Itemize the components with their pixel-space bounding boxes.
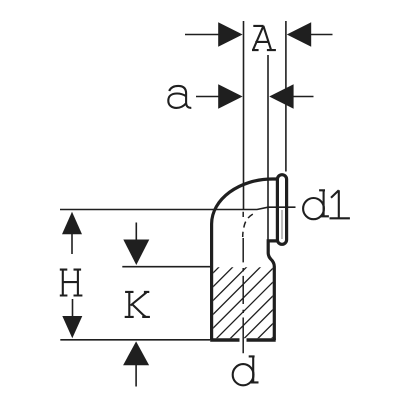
dimension H stem top (71, 234, 73, 254)
label H (60, 270, 83, 296)
d1 leader line (also H top reference) (60, 207, 296, 209)
dimension K arrow up (123, 341, 149, 365)
dimension A leader right (311, 34, 333, 36)
dimension A arrow right (287, 22, 311, 47)
socket sleeve capsule (277, 175, 286, 245)
socket step and right wall (268, 241, 277, 340)
dimension a arrow left (218, 84, 242, 109)
dimension K stem top (135, 223, 137, 241)
label a (168, 86, 191, 108)
dimension a arrow right (269, 84, 293, 109)
label d (233, 364, 254, 385)
dimension a leader left (196, 96, 220, 98)
extension line V3 (A right) (285, 21, 287, 172)
bottom edge right segment (247, 338, 276, 341)
hidden bore curve (dashed) (243, 214, 253, 237)
label K (125, 292, 150, 317)
dimension A leader left (185, 34, 220, 36)
section hatching (196, 200, 286, 400)
bottom reference line (60, 339, 210, 341)
centerline (dash-dot) (242, 212, 244, 354)
seal line inside sleeve (281, 210, 283, 239)
left wall and top arc (212, 179, 277, 340)
pipe body outline (210, 175, 286, 340)
dimension H stem bottom (72, 299, 74, 316)
label A (252, 26, 276, 50)
extension line V2 (a right) (267, 55, 269, 240)
dimension A arrow left (218, 22, 242, 47)
bottom edge left segment (210, 338, 239, 341)
dimension K stem bottom (135, 365, 137, 387)
extension line V1 (A/a left, pipe axis) (243, 21, 245, 210)
dimension H arrow down (62, 316, 82, 338)
dimension H arrow up (62, 212, 82, 235)
K top reference line (122, 266, 210, 268)
label d1 (303, 190, 329, 219)
dimension K arrow down (123, 240, 149, 266)
dimension a leader right (293, 96, 314, 98)
